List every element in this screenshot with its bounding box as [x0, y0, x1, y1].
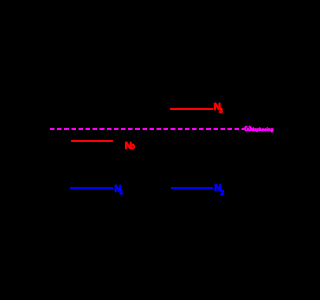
- level line N3 (red, upper right): [170, 108, 213, 110]
- level line N2 (blue, lower right): [171, 187, 213, 189]
- label N2: [214, 184, 221, 194]
- level line N0 (red, middle left): [71, 140, 113, 142]
- label N0: [125, 142, 132, 152]
- level line N1 (blue, lower left): [70, 187, 113, 189]
- label omega_dephasing: [244, 124, 252, 133]
- label N3: [214, 103, 221, 113]
- label N1: [114, 185, 121, 195]
- dashed line omega_dephasing (magenta): [50, 128, 244, 130]
